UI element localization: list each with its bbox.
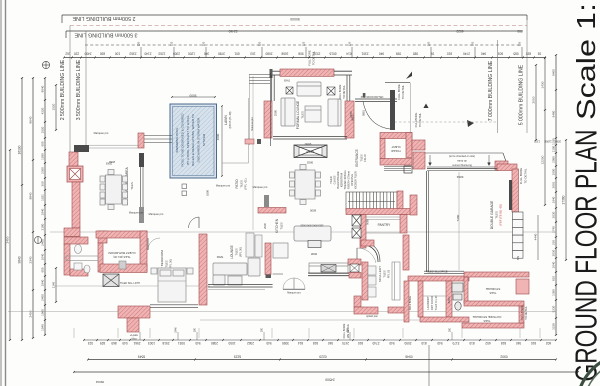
svg-text:2400: 2400 [6,236,10,243]
svg-text:GLASS: GLASS [333,175,337,184]
svg-text:22460: 22460 [228,29,237,33]
svg-text:3780: 3780 [218,51,225,55]
svg-text:1940: 1940 [41,208,45,215]
svg-text:FULL BORE: FULL BORE [520,305,524,320]
svg-text:LAUNDRY: LAUNDRY [426,296,430,309]
dashed construction line [85,44,520,46]
building line 2500 (top) [62,14,527,16]
svg-text:BATH: BATH [447,297,451,304]
wall [410,195,417,215]
slider track gray [139,207,144,223]
curved wall [361,244,378,262]
svg-text:3 500mm BUILDING LINE: 3 500mm BUILDING LINE [74,31,137,37]
svg-text:KICKER TILER: KICKER TILER [354,171,358,189]
kitchen counter top [309,263,348,274]
svg-text:16190: 16190 [18,145,22,154]
fridge [273,243,288,258]
svg-text:TILES: TILES [483,319,490,322]
svg-text:940: 940 [266,341,271,345]
svg-text:2063: 2063 [105,162,112,166]
svg-text:2301: 2301 [361,51,368,55]
vertical line to bottom edge [428,345,430,386]
construction line vert hall [252,76,254,230]
svg-text:TILES: TILES [495,211,499,219]
svg-text:614: 614 [346,51,351,55]
pantry shelves [366,216,400,218]
svg-text:023: 023 [88,341,93,345]
svg-text:105: 105 [471,41,475,46]
svg-text:1940: 1940 [41,279,45,286]
svg-text:2000: 2000 [532,96,536,103]
svg-text:6000: 6000 [309,209,316,213]
wall [512,169,519,212]
svg-text:TO DETAIL: TO DETAIL [342,85,346,99]
wall [98,243,103,272]
svg-text:Marquee pro: Marquee pro [251,117,254,131]
wall [362,262,368,300]
svg-text:220: 220 [348,41,352,46]
svg-text:601: 601 [234,51,239,55]
svg-text:Marquee pro: Marquee pro [129,212,144,215]
wall [380,159,412,166]
svg-text:1990: 1990 [41,309,45,316]
svg-text:220: 220 [202,41,206,46]
svg-text:814: 814 [298,341,303,345]
garage shelf column [513,212,524,258]
lounge west wall line [270,73,272,146]
bath shelf line [66,256,98,261]
svg-text:220: 220 [74,51,79,55]
svg-text:2961: 2961 [133,341,140,345]
scullery appliances [368,266,376,297]
sink unit [321,265,336,273]
svg-text:2080: 2080 [265,51,272,55]
construction line horiz mid [50,231,556,233]
svg-text:2180: 2180 [41,223,45,230]
svg-text:940: 940 [437,341,442,345]
window sill line [208,289,265,291]
svg-text:1063 0042 0042 0620: 1063 0042 0042 0620 [300,224,324,227]
dining table [100,170,128,210]
svg-text:2080: 2080 [552,156,556,163]
svg-text:1100E: 1100E [544,140,552,144]
porch roof edge [385,82,410,84]
svg-text:180: 180 [449,327,452,332]
svg-text:SWIMMING POOL: SWIMMING POOL [175,127,179,152]
staircase [346,192,397,211]
svg-text:BALUSTRADE: BALUSTRADE [336,171,340,189]
svg-text:7 000mm BUILDING LINE: 7 000mm BUILDING LINE [488,60,494,121]
svg-text:93: 93 [538,51,542,55]
wall [354,296,361,307]
porch front line [355,98,397,100]
svg-text:LAWN: LAWN [224,115,228,125]
svg-text:2080: 2080 [555,140,561,144]
svg-text:1430: 1430 [541,81,545,88]
svg-text:BRAAI: BRAAI [306,150,314,154]
stair arrow [348,201,395,203]
svg-text:9840: 9840 [29,192,33,199]
svg-text:1940: 1940 [552,196,556,203]
wall [412,140,425,150]
svg-text:2740: 2740 [552,226,556,233]
svg-text:TILES: TILES [235,248,239,255]
svg-text:220: 220 [427,41,431,46]
svg-text:TILES: TILES [360,154,364,161]
svg-text:3 500mm BUILDING LINE: 3 500mm BUILDING LINE [76,59,82,120]
svg-text:(FFL 30): (FFL 30) [239,247,243,257]
svg-text:810: 810 [447,51,452,55]
svg-text:1050: 1050 [228,341,235,345]
lounge top-right window [334,70,352,72]
pool side boxes [182,184,187,196]
svg-text:810: 810 [358,341,363,345]
svg-text:60%1: 60%1 [284,80,291,83]
svg-text:829: 829 [100,341,105,345]
svg-text:9000: 9000 [189,94,196,98]
lounge left window [271,75,273,101]
svg-text:810: 810 [469,341,474,345]
svg-text:085: 085 [513,51,518,55]
wall [64,237,88,244]
wall [98,231,107,243]
svg-text:1263: 1263 [158,51,165,55]
wall [380,133,412,139]
wall [464,272,529,277]
bottom dimension line 3 [74,371,578,373]
svg-text:TILES: TILES [165,260,169,267]
laundry window [424,270,464,272]
svg-text:3238: 3238 [552,323,556,330]
svg-text:2030: 2030 [552,249,556,256]
svg-text:603: 603 [498,51,503,55]
svg-text:830: 830 [100,51,105,55]
svg-text:6229: 6229 [234,355,242,359]
svg-text:2091: 2091 [552,181,556,188]
svg-text:2400: 2400 [41,294,45,301]
svg-text:Marquee pro: Marquee pro [287,292,301,295]
building line dashed red [70,25,527,27]
svg-text:810: 810 [531,341,536,345]
building line 2500 (left, vertical) [69,26,71,153]
wall [127,318,139,332]
svg-text:320: 320 [518,41,522,46]
svg-text:(to be checked on site): (to be checked on site) [449,154,475,158]
svg-text:TO DETAIL: TO DETAIL [524,168,528,184]
svg-text:TILES: TILES [130,182,134,190]
svg-text:2740: 2740 [372,341,379,345]
svg-text:6016: 6016 [329,51,336,55]
svg-text:TO DETAIL: TO DETAIL [524,306,528,320]
wall [258,208,286,214]
wall [446,281,452,317]
svg-text:(FBF (TB 05) -08): (FBF (TB 05) -08) [499,204,503,225]
scan edge lines [0,0,2,386]
svg-text:869: 869 [111,341,116,345]
svg-text:4000: 4000 [216,133,220,140]
svg-text:SYSTEM: SYSTEM [202,133,206,146]
svg-text:602: 602 [485,341,490,345]
svg-text:2340: 2340 [29,256,33,263]
svg-text:Marquee pro: Marquee pro [253,185,268,189]
ramp arrows [429,155,491,166]
building line 3500 (top) [66,30,523,32]
svg-text:splash pan: splash pan [366,315,378,318]
svg-text:2400: 2400 [41,239,45,246]
lounge right window [346,75,348,101]
svg-text:163: 163 [250,51,255,55]
svg-text:5 000mm BUILDING LINE: 5 000mm BUILDING LINE [519,64,525,125]
svg-text:tiling: tiling [132,338,138,341]
svg-text:3IN DETAIL: 3IN DETAIL [346,323,350,338]
svg-text:PAVE: PAVE [217,255,224,259]
svg-text:STORAGE: STORAGE [486,287,501,291]
svg-text:320: 320 [258,41,262,46]
svg-text:2030: 2030 [552,211,556,218]
entertainment top opening lines [89,144,138,146]
entry steps [384,166,411,168]
svg-text:TILES (FFL 30): TILES (FFL 30) [113,255,130,258]
svg-text:1280: 1280 [41,153,45,160]
wall [346,209,411,215]
left dimension lines [9,150,11,340]
wall [464,301,524,306]
svg-text:KERB/TRIM: KERB/TRIM [340,173,344,187]
svg-text:RISER=170mm: RISER=170mm [347,171,351,189]
logo arc [577,354,600,386]
svg-text:GROUND FLOOR PLAN: GROUND FLOOR PLAN [569,130,600,382]
svg-text:(FB 05 (TL 48): (FB 05 (TL 48) [228,111,232,128]
svg-text:1040: 1040 [41,253,45,260]
svg-text:Marquee pro: Marquee pro [94,131,109,135]
lounge sofas [281,82,341,126]
svg-text:GUEST BATHROOM: GUEST BATHROOM [108,251,136,255]
svg-text:FULL BORE: FULL BORE [408,296,412,311]
swimming pool [170,104,217,178]
datum circle [42,61,49,68]
svg-text:2918: 2918 [162,341,169,345]
svg-text:DRY ROOM: DRY ROOM [430,296,434,310]
svg-text:8640: 8640 [29,116,33,123]
garage door track [509,180,512,210]
drop lines to dims [73,328,75,338]
guest door arc [148,238,160,250]
svg-text:BY A POOL SPECIALIST TO LOCAL: BY A POOL SPECIALIST TO LOCAL [186,115,190,165]
toilet+basin [74,245,126,274]
svg-text:GUEST: GUEST [391,145,401,149]
entrance door panel [390,90,395,130]
svg-text:605: 605 [41,267,45,272]
svg-text:RULES & REGULATIONS. WATER TO: RULES & REGULATIONS. WATER TO [191,113,195,166]
svg-text:(FFL -01): (FFL -01) [244,178,248,189]
construction line horiz low2 [200,319,462,321]
svg-text:0881: 0881 [362,110,366,116]
svg-text:100: 100 [115,51,120,55]
construction line horiz entry [390,121,497,123]
svg-text:8400: 8400 [552,69,556,76]
wall [345,101,354,138]
svg-text:1668: 1668 [281,51,288,55]
svg-text:605: 605 [41,141,45,146]
lounge speaker X boxes [286,87,335,95]
svg-text:0060: 0060 [366,219,370,225]
wall [69,152,78,166]
svg-text:6549: 6549 [138,355,146,359]
svg-text:FORMAL LOUNGE: FORMAL LOUNGE [296,100,300,129]
svg-text:1380: 1380 [552,289,556,296]
wall [497,164,517,171]
svg-text:1100: 1100 [552,145,556,152]
wall [495,161,508,170]
braai table [294,145,327,158]
svg-text:818: 818 [313,341,318,345]
wall [72,182,80,228]
wall [354,307,378,314]
svg-text:2380: 2380 [211,341,218,345]
svg-text:940: 940 [481,51,486,55]
wall [264,101,272,138]
svg-text:1140: 1140 [52,281,56,288]
svg-text:SCULLERY: SCULLERY [378,266,382,282]
kitchen pillar [264,195,269,207]
pool dimension 9000 [172,96,215,98]
svg-text:TO DETAIL: TO DETAIL [418,112,422,127]
svg-text:6062: 6062 [456,175,463,179]
flag marker [406,72,412,80]
compass triangle [467,120,474,127]
svg-text:2 500mm BUILDING LINE: 2 500mm BUILDING LINE [72,15,135,21]
wall [70,269,88,276]
svg-text:OUTSIDE STORAGE: OUTSIDE STORAGE [473,315,502,319]
guest window bottom [150,304,198,306]
shaft boxes [352,215,361,238]
svg-text:180: 180 [194,327,197,332]
svg-text:9480: 9480 [552,110,556,117]
svg-text:2362: 2362 [247,341,254,345]
svg-text:0008: 0008 [310,252,317,256]
scullery counter [392,262,400,300]
wall [349,273,361,279]
svg-text:FULL BORE: FULL BORE [519,168,523,185]
wall [462,323,524,328]
svg-text:TILES FFL 03: TILES FFL 03 [435,295,438,310]
storage right pink patch [516,279,529,294]
svg-text:940: 940 [389,341,394,345]
bottom tick row [84,339,556,341]
wall [199,234,207,305]
svg-text:FULL BORE: FULL BORE [342,323,346,338]
right dimension lines [535,65,537,140]
svg-text:TO DETAIL: TO DETAIL [312,50,316,65]
svg-text:LOUNGE: LOUNGE [230,245,234,258]
svg-text:4220: 4220 [41,107,45,114]
svg-text:3090: 3090 [282,341,289,345]
entertainment top dark wall [74,145,89,152]
svg-text:TILED: TILED [329,176,333,183]
lawn boundary lines [248,98,250,163]
wall [360,215,366,249]
shower [103,274,119,287]
svg-text:810: 810 [552,276,556,281]
svg-text:0661: 0661 [351,115,355,121]
wall [64,228,80,236]
svg-text:180: 180 [261,327,264,332]
svg-text:Scale 1:: Scale 1: [571,3,600,120]
x-box left wall [350,264,359,272]
svg-text:1621: 1621 [41,194,45,201]
svg-text:BIN: BIN [517,256,520,260]
svg-text:360: 360 [41,181,45,186]
wall [420,317,469,322]
slider track dark [139,153,144,167]
construction line vert garage [458,172,460,270]
svg-text:FFL±0: FFL±0 [363,154,367,162]
svg-text:OPENING: OPENING [350,174,354,186]
svg-text:17360: 17360 [562,195,566,204]
wall [418,281,423,317]
svg-text:125: 125 [302,41,306,46]
svg-text:099: 099 [396,51,401,55]
wall [406,133,412,158]
north arrow [35,236,42,244]
svg-text:TILES: TILES [280,222,284,229]
svg-text:DOUBLE GARAGE: DOUBLE GARAGE [490,200,494,229]
svg-text:2363: 2363 [129,51,136,55]
datum triangle [423,104,428,109]
kitchen island [294,226,331,241]
wall [140,231,147,272]
entrance door arc [363,102,390,130]
lounge sofa set [213,258,260,285]
svg-text:2360: 2360 [41,167,45,174]
svg-text:TOILED: TOILED [391,149,401,153]
svg-text:TILES: TILES [489,291,496,294]
svg-text:TILES: TILES [383,270,387,277]
wall [265,243,271,275]
svg-text:FULL BORE: FULL BORE [338,84,342,99]
svg-text:940: 940 [516,341,521,345]
svg-text:220: 220 [137,41,141,46]
bin box [404,166,412,173]
svg-text:PATIO: PATIO [235,179,239,189]
svg-text:1940: 1940 [175,327,178,333]
svg-text:7280: 7280 [456,214,460,221]
entertainment right window [140,167,142,207]
svg-text:1520: 1520 [52,103,56,110]
construction line horiz guest [55,285,210,287]
garage left wall [426,171,428,272]
wall [400,215,407,234]
wall [361,240,374,246]
annex shelf ladder [248,74,250,145]
wall [388,307,407,313]
lounge bottom window [273,136,347,138]
bath fixtures [452,283,463,310]
driveway ramp [416,153,508,167]
wall [403,235,409,270]
top dimension line [64,57,545,59]
laundry shelf line [423,295,446,297]
svg-text:1200: 1200 [188,51,195,55]
svg-text:TILED SILL LDTH: TILED SILL LDTH [120,282,140,285]
svg-text:POOL TO BE DESIGNED & COVERED: POOL TO BE DESIGNED & COVERED [180,113,184,167]
svg-text:1335: 1335 [534,140,540,144]
svg-text:0802: 0802 [306,161,313,165]
svg-text:0992: 0992 [500,355,508,359]
svg-text:3170: 3170 [452,341,459,345]
svg-text:790: 790 [517,29,523,33]
oven tower [246,233,262,257]
